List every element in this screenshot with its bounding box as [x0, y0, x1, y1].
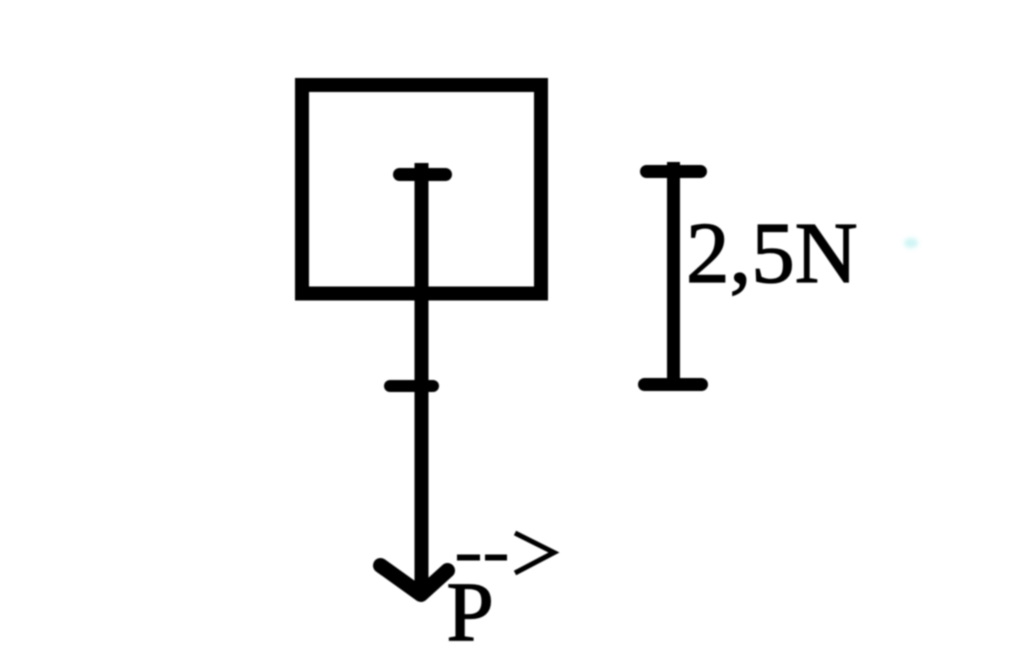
dashed over-arrow of P: arrowhead >: [515, 533, 554, 573]
block (square box): [302, 85, 541, 294]
svg-text:P: P: [447, 566, 494, 660]
svg-text:2,5N: 2,5N: [686, 204, 858, 301]
tail tick of vector: [400, 168, 446, 181]
mid tick of vector: [390, 380, 433, 392]
dashed over-arrow of P: dash 1: [457, 555, 480, 561]
dashed over-arrow of P: dash 2: [485, 555, 507, 561]
faint cyan artifact: [904, 238, 918, 248]
scale bar bottom cap: [645, 378, 702, 391]
weight force vector line P: [415, 163, 429, 586]
scale bar vertical line: [667, 162, 680, 390]
arrowhead of vector P: [381, 566, 448, 595]
scale bar top cap: [647, 165, 701, 178]
